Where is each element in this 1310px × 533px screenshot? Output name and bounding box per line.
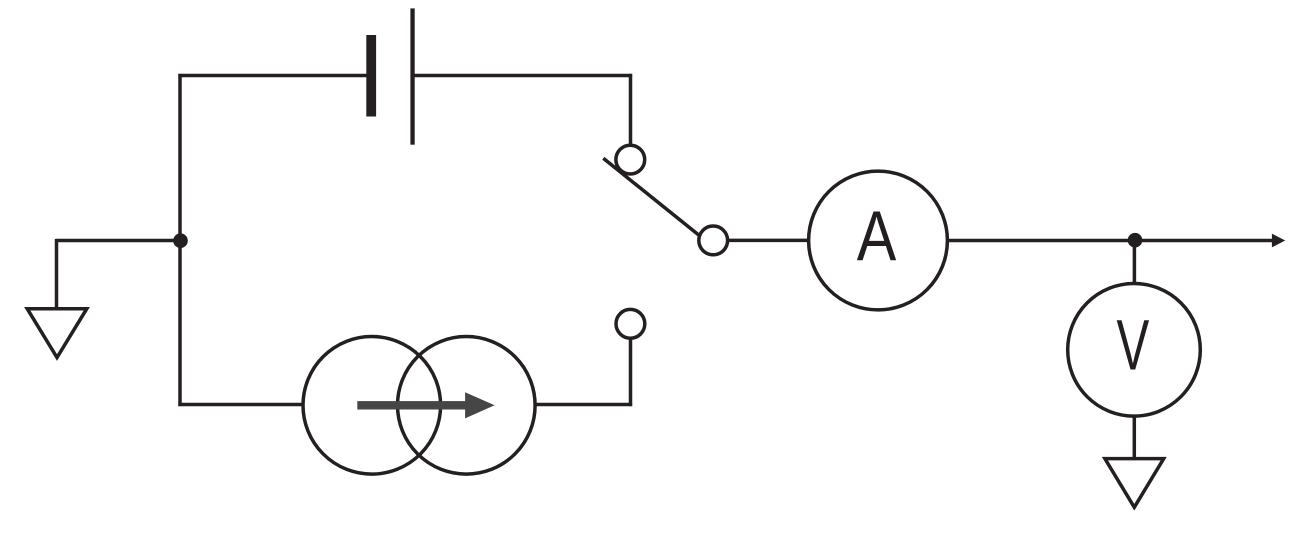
ammeter A body circle — [809, 171, 948, 310]
wire ground lead vertical — [55, 239, 59, 310]
wire vertical up to lower contact circle — [629, 338, 633, 406]
switch upper contact circle — [616, 145, 645, 174]
wire junction to ground branch — [57, 239, 181, 243]
wire voltmeter to ground lead — [1133, 416, 1137, 460]
current source B1 right circle — [398, 337, 536, 475]
wire top-left horizontal (node junction to battery negative) — [178, 74, 367, 78]
output arrowhead — [1272, 234, 1285, 248]
battery V1 positive plate (thin) — [410, 8, 414, 144]
svg-text:A: A — [857, 196, 897, 275]
current source arrowhead — [465, 392, 495, 418]
ground symbol left — [27, 309, 87, 358]
switch lower contact circle — [616, 309, 645, 338]
wire current source to switch lower contact — [535, 403, 632, 407]
svg-text:V: V — [1117, 306, 1150, 385]
battery V1 negative plate (thick) — [366, 35, 376, 117]
wire ammeter to output arrow — [947, 239, 1273, 243]
junction node dot at voltmeter tap — [1128, 233, 1143, 248]
wire battery positive to switch top — [413, 74, 632, 78]
ground symbol right — [1105, 459, 1164, 508]
current source B1 left circle — [303, 337, 441, 475]
wire voltmeter lead vertical — [1133, 241, 1137, 285]
switch pivot contact circle — [699, 226, 728, 255]
wire switch top lead vertical — [629, 74, 633, 145]
wire bottom horizontal to current source — [178, 403, 304, 407]
wire switch pivot to ammeter — [728, 239, 809, 243]
junction node dot left — [173, 233, 188, 248]
wire left vertical bus — [178, 74, 182, 406]
current source arrow shaft — [357, 401, 467, 409]
voltmeter V body circle — [1068, 284, 1201, 417]
switch blade S1 — [603, 158, 701, 237]
